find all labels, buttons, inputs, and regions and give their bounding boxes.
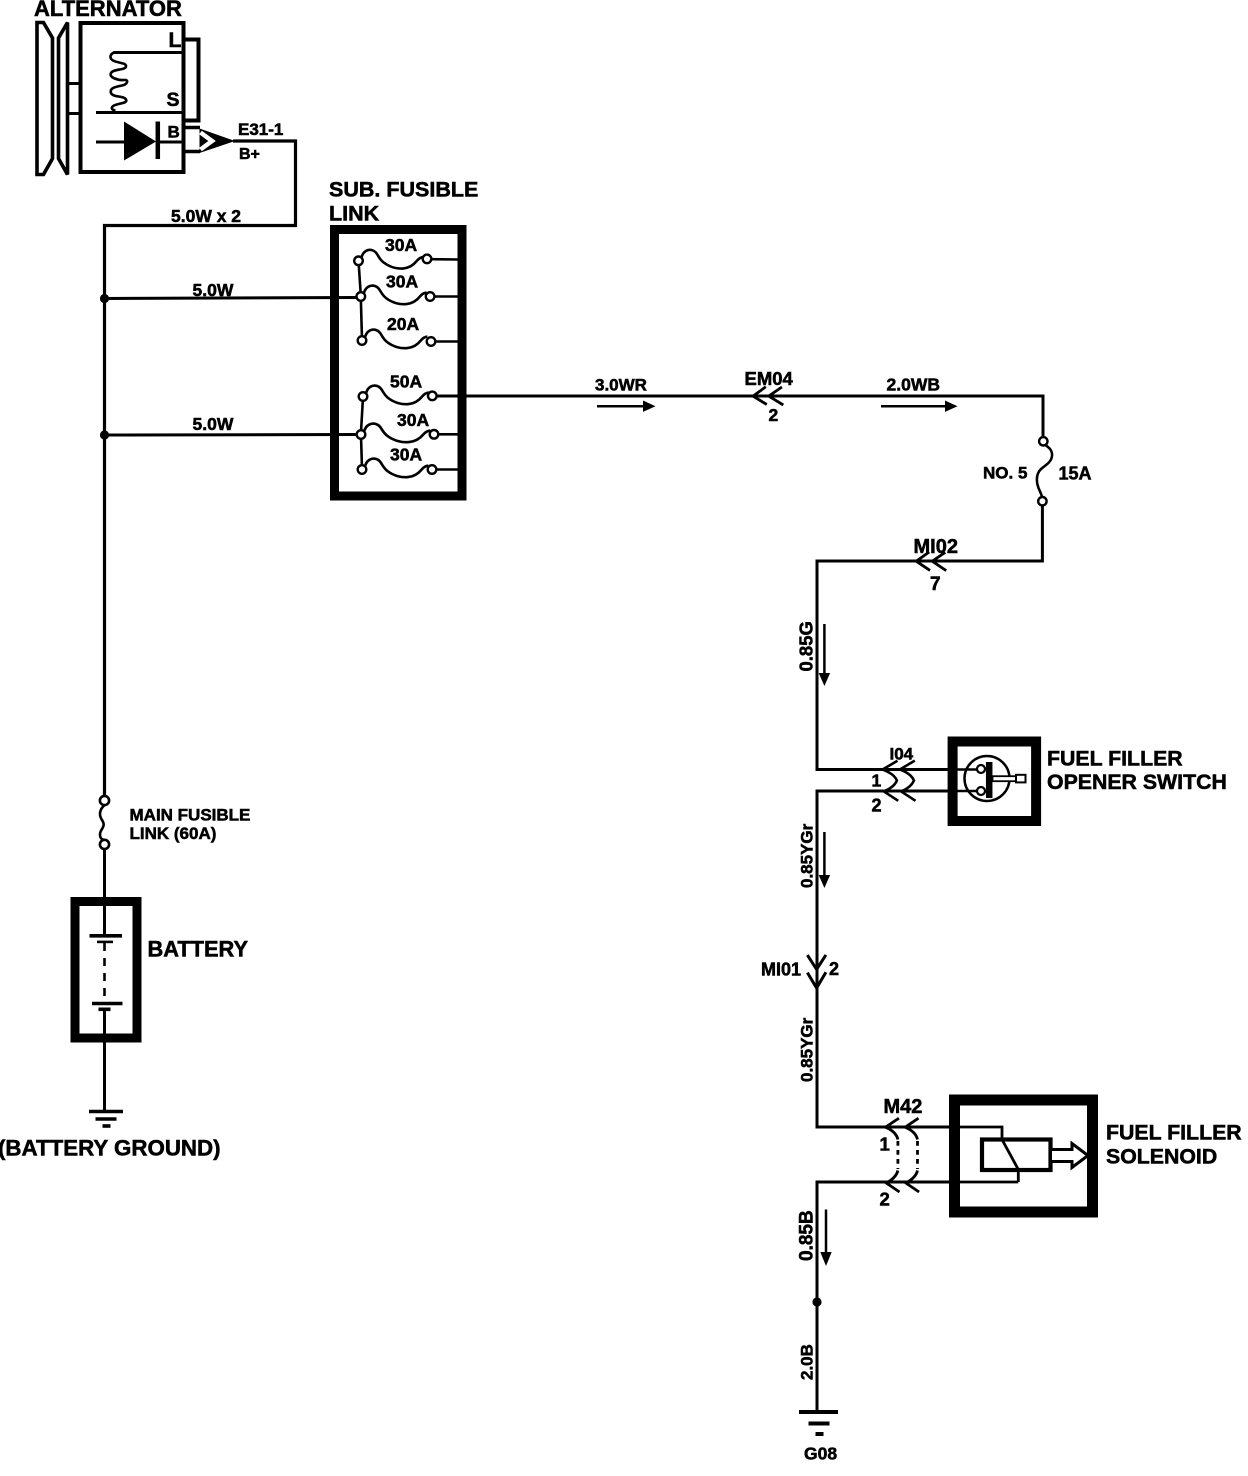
terminal S label <box>167 89 180 111</box>
flow arrow 0.85YGr <box>819 832 830 888</box>
solenoid internal wiring <box>953 1127 1018 1182</box>
label 0.85G <box>796 621 817 671</box>
svg-text:0.85G: 0.85G <box>796 621 817 671</box>
svg-text:3.0WR: 3.0WR <box>595 376 647 395</box>
flow arrow 0.85B <box>820 1210 831 1267</box>
label MI02 pin 7 <box>930 574 941 595</box>
svg-text:E31-1: E31-1 <box>238 120 283 139</box>
label 5.0W upper <box>193 280 234 300</box>
svg-text:FUEL FILLER: FUEL FILLER <box>1106 1121 1242 1145</box>
label FUEL FILLER SOLENOID <box>1106 1121 1242 1169</box>
wire B+ to bus <box>105 141 296 796</box>
fuel filler opener switch box <box>953 742 1037 822</box>
label MI02 <box>914 536 958 558</box>
label 15A <box>1059 464 1092 484</box>
solenoid coil rectangle <box>982 1140 1051 1171</box>
junction dot B <box>100 430 109 439</box>
label M42 pin 1 <box>880 1134 890 1155</box>
label MI01 <box>761 959 801 979</box>
terminal L label <box>169 29 182 52</box>
svg-text:5.0W: 5.0W <box>193 280 234 300</box>
label 5.0W x 2 <box>171 206 241 226</box>
wire 5.0W upper <box>105 298 358 299</box>
fuse F1 30A <box>354 235 457 269</box>
label I04 pin 1 <box>872 771 882 791</box>
label 3.0WR <box>595 376 647 395</box>
fuse F6 30A <box>358 444 458 477</box>
wire battery to ground <box>103 1010 106 1110</box>
svg-text:5.0W: 5.0W <box>193 414 234 434</box>
svg-text:0.85B: 0.85B <box>797 1210 818 1261</box>
svg-text:I04: I04 <box>890 745 914 764</box>
battery box <box>75 902 137 1039</box>
wire L internal <box>114 51 184 54</box>
wire fuse to MI02 to I04 pin1 <box>817 505 1042 769</box>
alternator U1 box <box>81 23 184 172</box>
svg-text:(BATTERY GROUND): (BATTERY GROUND) <box>0 1136 221 1161</box>
svg-text:7: 7 <box>930 574 941 595</box>
svg-text:M42: M42 <box>884 1096 923 1118</box>
diode D1 <box>96 122 185 161</box>
svg-text:FUEL FILLER: FUEL FILLER <box>1047 747 1183 771</box>
battery ground symbol <box>89 1112 123 1127</box>
svg-text:SUB. FUSIBLE: SUB. FUSIBLE <box>329 178 478 202</box>
label M42 pin 2 <box>880 1189 890 1210</box>
label MI01 pin 2 <box>829 959 839 979</box>
flow arrow 3.0WR <box>597 401 656 412</box>
label E31-1 <box>238 120 283 139</box>
solenoid plunger outline arrow <box>1051 1144 1089 1168</box>
svg-text:S: S <box>167 89 180 111</box>
label M42 <box>884 1096 923 1118</box>
svg-text:B+: B+ <box>239 146 260 163</box>
wire fusible link to battery <box>103 849 106 935</box>
fuse link wires F1-F3 <box>359 265 362 336</box>
label MAIN FUSIBLE LINK (60A) <box>130 805 251 843</box>
switch actuator bar <box>986 762 993 798</box>
rotor coil winding <box>110 53 127 111</box>
svg-text:2: 2 <box>880 1189 890 1210</box>
svg-text:2: 2 <box>829 959 839 979</box>
connector MI01 chevrons <box>807 955 826 988</box>
switch plunger stem <box>993 775 1026 783</box>
switch contact circles <box>977 765 985 795</box>
svg-text:LINK (60A): LINK (60A) <box>130 824 217 843</box>
label 0.85YGr lower <box>798 1017 817 1082</box>
svg-text:20A: 20A <box>387 314 419 334</box>
svg-text:SOLENOID: SOLENOID <box>1106 1145 1217 1169</box>
svg-text:MAIN FUSIBLE: MAIN FUSIBLE <box>130 805 251 824</box>
main fusible link 60A <box>100 796 109 849</box>
wire 5.0W lower <box>105 433 358 437</box>
switch body circle <box>965 756 1010 801</box>
svg-text:OPENER SWITCH: OPENER SWITCH <box>1047 770 1227 794</box>
svg-text:1: 1 <box>872 771 882 791</box>
svg-text:30A: 30A <box>397 410 429 430</box>
connector MI02 chevrons <box>916 552 946 571</box>
wire I04 pin2 down to M42 pin1 <box>817 791 953 1127</box>
connector EM04 chevrons <box>753 387 783 405</box>
wire 50A output 3.0WR/2.0WB <box>437 396 1043 437</box>
svg-text:30A: 30A <box>386 271 418 291</box>
svg-text:30A: 30A <box>390 444 422 464</box>
fuse F3 20A <box>358 314 458 348</box>
svg-text:BATTERY: BATTERY <box>148 937 249 962</box>
connector M42 chevrons with dashed shell <box>886 1118 920 1192</box>
svg-text:EM04: EM04 <box>745 368 794 389</box>
svg-text:2.0B: 2.0B <box>798 1344 817 1380</box>
label FUEL FILLER OPENER SWITCH <box>1047 747 1227 795</box>
fuel filler solenoid box <box>955 1100 1093 1212</box>
label 2.0WB <box>887 375 940 395</box>
fuse F2 30A <box>357 271 458 304</box>
svg-text:MI01: MI01 <box>761 959 801 979</box>
connector I04 chevrons <box>883 761 916 801</box>
battery cells <box>90 936 123 1010</box>
svg-text:50A: 50A <box>390 372 422 392</box>
label BATTERY <box>148 937 249 962</box>
ground G08 <box>799 1412 838 1434</box>
svg-text:0.85YGr: 0.85YGr <box>798 823 817 888</box>
sub fusible link box <box>335 230 463 497</box>
label G08 <box>804 1444 837 1464</box>
fuse F5 30A <box>357 410 458 442</box>
svg-text:G08: G08 <box>804 1444 837 1464</box>
svg-text:LINK: LINK <box>329 202 380 226</box>
svg-text:1: 1 <box>880 1134 890 1155</box>
svg-text:2.0WB: 2.0WB <box>887 375 940 395</box>
connector E31-1 male arrow <box>200 129 236 154</box>
label 5.0W lower <box>193 414 234 434</box>
svg-text:15A: 15A <box>1059 464 1092 484</box>
label I04 pin 2 <box>872 796 882 816</box>
svg-text:MI02: MI02 <box>914 536 958 558</box>
L S connector bracket <box>185 40 199 121</box>
B connector bracket <box>185 128 200 152</box>
label 2.0B <box>798 1344 817 1380</box>
flow arrow 0.85G <box>819 624 830 686</box>
alternator shaft lines <box>67 84 79 114</box>
switch contact wires <box>953 770 978 792</box>
junction dot C <box>812 1297 821 1306</box>
label SUB. FUSIBLE LINK <box>329 178 478 226</box>
label EM04 pin 2 <box>769 405 779 425</box>
label NO. 5 <box>983 464 1027 483</box>
wire S internal <box>96 111 184 114</box>
wire M42 pin2 to ground <box>817 1182 953 1411</box>
svg-text:L: L <box>169 29 182 52</box>
label B+ <box>239 146 260 163</box>
label 0.85YGr upper <box>798 823 817 888</box>
flow arrow 2.0WB <box>881 401 958 412</box>
fuse F4 50A <box>359 372 437 405</box>
svg-text:NO. 5: NO. 5 <box>983 464 1027 483</box>
label EM04 <box>745 368 794 389</box>
fuse link wires F4-F6 <box>361 401 363 465</box>
junction dot A <box>100 294 109 303</box>
fuse NO.5 15A <box>1037 437 1052 505</box>
svg-text:30A: 30A <box>385 235 417 255</box>
terminal B label <box>168 123 180 142</box>
svg-text:2: 2 <box>769 405 779 425</box>
svg-text:B: B <box>168 123 180 142</box>
alternator label <box>34 0 182 21</box>
label 0.85B <box>797 1210 818 1261</box>
alternator pulley <box>37 23 68 175</box>
label I04 <box>890 745 914 764</box>
label (BATTERY GROUND) <box>0 1136 221 1161</box>
svg-text:ALTERNATOR: ALTERNATOR <box>34 0 182 21</box>
svg-text:5.0W x 2: 5.0W x 2 <box>171 206 241 226</box>
svg-text:2: 2 <box>872 796 882 816</box>
svg-text:0.85YGr: 0.85YGr <box>798 1017 817 1082</box>
